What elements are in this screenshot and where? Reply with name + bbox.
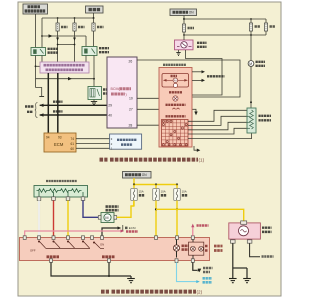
- resistor: blower fan resistor box (fig2): [34, 186, 88, 198]
- wire: tie between F1 and F2 drops: [58, 44, 75, 46]
- wire: navy wire resistor pin4 to blower motor: [83, 200, 100, 217]
- wire: ignition relay coil out down-left branch: [35, 56, 37, 88]
- svg-text:OFF: OFF: [30, 249, 36, 253]
- pin: top edge connector pins: [23, 236, 194, 240]
- wire: white wire resistor pin1 to fan switch: [38, 200, 40, 236]
- wire: F1 to IPDM with arrow: [57, 31, 59, 62]
- svg-text:(1): (1): [199, 157, 205, 162]
- svg-text:27: 27: [129, 108, 133, 112]
- wire: battery drop to bus: [93, 13, 95, 18]
- wire: horizontal run to compressor with arrow: [36, 78, 95, 80]
- power label: ignition switch ON (fig2): [123, 172, 152, 179]
- fuse F4 (condenser): [249, 19, 260, 31]
- wire: fuse3 yellow down to branch: [176, 201, 178, 210]
- fuse F3 (battery): [92, 18, 104, 31]
- control: A/C switch: [166, 105, 186, 110]
- wire: BCM pin28 to fan switch: [137, 124, 161, 126]
- svg-text:): ): [126, 92, 127, 96]
- label: blower fan resistor (fig2): [46, 180, 77, 182]
- wire: black at-ECM signal from fan switch pin: [102, 225, 136, 236]
- wire: fan switch step wire 3 to resistor: [188, 122, 247, 130]
- label: fan switch text: [47, 255, 60, 258]
- motor: condenser fan motor: [248, 61, 265, 67]
- power label: ignition switch IGN (top right): [170, 9, 197, 16]
- node: battery bus junction: [93, 17, 95, 19]
- relay: ignition relay: [31, 48, 58, 56]
- fuse: fig2 fuse 3 (10A): [174, 185, 188, 201]
- switch: A/C switch contact: [93, 242, 104, 249]
- module: IPDM E/R box: [40, 62, 89, 73]
- wire: branch to A/C relay coil with direction arrow: [42, 35, 86, 37]
- wire: CAN line L (thick) IPDM to ECM: [57, 73, 59, 133]
- wire: fuse1 to blower yellow: [133, 201, 135, 207]
- svg-text:ON: ON: [142, 173, 147, 177]
- svg-text:10A: 10A: [161, 190, 166, 194]
- pin: resistor connector pins: [37, 197, 85, 201]
- wire: cyan lead to heater control: [177, 262, 213, 283]
- svg-text:ON: ON: [100, 243, 104, 247]
- wire: yellow wire resistor pin3 to fan switch: [67, 200, 69, 236]
- wire: ignition relay switch to IPDM: [41, 56, 43, 63]
- svg-text:61: 61: [71, 142, 75, 146]
- fuse F6 (blower amp): [182, 19, 194, 32]
- svg-text:40: 40: [108, 113, 112, 117]
- svg-text:60: 60: [71, 147, 75, 151]
- compressor magnet clutch: [88, 87, 110, 100]
- wire: pink at-ECM arrow up (A/C signal): [191, 224, 208, 236]
- svg-text:10A: 10A: [182, 190, 187, 194]
- label: heater control board (fig2, right of box): [214, 246, 223, 251]
- label: fan switch: [166, 115, 186, 117]
- svg-text:ECM: ECM: [54, 142, 64, 147]
- wire: yellow blower feed from fuse: [117, 201, 134, 217]
- svg-text:28: 28: [129, 124, 133, 128]
- wire: fuse to amp: [183, 35, 185, 40]
- svg-text:26: 26: [129, 60, 133, 64]
- module: BCM body control module: [107, 57, 137, 128]
- wire: panel to lighting system arrows: [192, 70, 225, 82]
- lamp: A/C indicator: [173, 239, 188, 257]
- wire: A/C switch out with hook arrow: [180, 109, 197, 112]
- svg-text:ECM: ECM: [129, 226, 136, 230]
- wire: tie line right fuses: [183, 32, 185, 35]
- wire: BCM pin26 loop to heater panel right: [137, 60, 240, 97]
- wire: panel bottom hook arrow: [194, 146, 198, 150]
- wire: F2 to IPDM with arrow: [74, 31, 76, 62]
- svg-text:M: M: [105, 216, 108, 220]
- wire: yellow drop to indicator lamp: [176, 209, 178, 236]
- fuse F5: [264, 19, 275, 35]
- ground: amp: [176, 50, 180, 55]
- label: heater control panel (fig1): [163, 64, 186, 66]
- wire: fuse2 yellow down to heater panel: [155, 201, 157, 237]
- svg-text:94: 94: [46, 135, 50, 139]
- switch: fan switch contacts: [38, 241, 90, 249]
- wire: BCM pin27 to A/C switch: [137, 108, 171, 110]
- wire: IGN label drop: [183, 16, 185, 20]
- wire: ground run fan switch: [51, 262, 131, 278]
- node: branch at y36: [41, 35, 43, 37]
- fuse F1: [56, 18, 68, 31]
- relay: condenser fan relay/motor unit (fig2 right): [229, 221, 272, 243]
- svg-text:93: 93: [58, 135, 62, 139]
- wire: ignition label down to ignition relay coil: [35, 14, 37, 48]
- wire: yellow run to condenser relay: [156, 209, 244, 221]
- label: A/C switch text: [102, 255, 115, 258]
- node: yellow branch dot: [155, 208, 157, 210]
- wire: yellow feed from ignition to fuse bus: [133, 178, 135, 185]
- control: defroster: [169, 92, 182, 101]
- sensor: refrigerant pressure sensor: [110, 134, 142, 150]
- relay: A/C relay: [82, 47, 109, 56]
- svg-text:10: 10: [129, 96, 133, 100]
- wire: BCM pin10 to defroster: [137, 97, 173, 99]
- svg-text:BCM(: BCM(: [111, 87, 121, 91]
- fuse: fig2 fuse 1 (15A): [131, 185, 145, 201]
- caption figure 1: [100, 158, 108, 162]
- svg-text:15A: 15A: [139, 190, 144, 194]
- wire: pink at-ECM wire from fan switch: [25, 231, 122, 236]
- svg-text:M: M: [249, 62, 252, 66]
- wire: bus left drop to ignition relay switch: [41, 18, 43, 48]
- wire: red wire resistor pin2 to fan switch: [53, 200, 55, 236]
- wire: condenser motor down to resistor top: [250, 66, 252, 108]
- wire: ECM to pressure sensor x3: [76, 138, 110, 140]
- module: ECM: [44, 133, 76, 152]
- wire: A/C relay switch down to compressor: [93, 56, 95, 87]
- control: fan switch contact grid: [162, 120, 189, 147]
- label: blower motor: [106, 205, 119, 208]
- fuse F2: [73, 18, 85, 31]
- ground: relay ground 2: [243, 279, 251, 283]
- ground: compressor: [91, 100, 97, 105]
- wire: F3 to A/C relay switch: [93, 31, 95, 47]
- wire: relay right pin to ECM: [250, 243, 274, 257]
- ground: relay ground 1: [229, 279, 237, 283]
- wire: CAN line H (thick) IPDM to ECM: [47, 73, 49, 133]
- wire: relay left pin to double ground: [233, 243, 247, 278]
- svg-text:ON: ON: [189, 11, 194, 15]
- wire: top supply bus: [42, 17, 94, 19]
- wire: IGN bus to right fuses: [184, 18, 266, 20]
- wire: amp output loop to heater panel: [186, 50, 223, 95]
- wire: data line 1 (to BCM pin29): [40, 102, 108, 107]
- wire: F4 down to condenser motor: [250, 31, 252, 61]
- panel: fan switch / heater control assembly (fig2): [20, 238, 210, 261]
- control: temperature knob block: [162, 74, 189, 88]
- ground: fan switch ground: [127, 279, 135, 283]
- fuse: fig2 fuse 2 (10A): [153, 185, 167, 201]
- wire: A/C relay coil to IPDM: [85, 56, 87, 63]
- svg-text:29: 29: [108, 104, 112, 108]
- svg-text:(2): (2): [197, 289, 203, 294]
- wire: fan switch step wire 1 to resistor: [188, 110, 247, 121]
- wire: black arrow to heater system: [193, 262, 213, 272]
- amplifier: blower amp box: [175, 40, 207, 50]
- panel: heater control board: [159, 68, 192, 148]
- wire: fan switch bottom wire to resistor bottom: [188, 133, 252, 139]
- power label: ignition switch ON/START: [23, 4, 48, 14]
- wire: data line 2 (to BCM pin40): [40, 111, 108, 116]
- node: CAN system label and bracket: [25, 103, 38, 118]
- power label: battery: [86, 6, 104, 13]
- wire: fan switch step wire 2 to resistor: [188, 116, 247, 125]
- caption figure 2: [101, 290, 109, 294]
- wire: fan switch step wire 4 to resistor: [188, 128, 247, 134]
- lamp: illumination pair: [189, 239, 209, 258]
- pin: bottom edge connector pins: [50, 259, 195, 263]
- motor: blower motor (fig2): [98, 213, 116, 223]
- resistor: blower fan resistor (fig1): [247, 108, 271, 133]
- svg-text:74: 74: [71, 137, 75, 141]
